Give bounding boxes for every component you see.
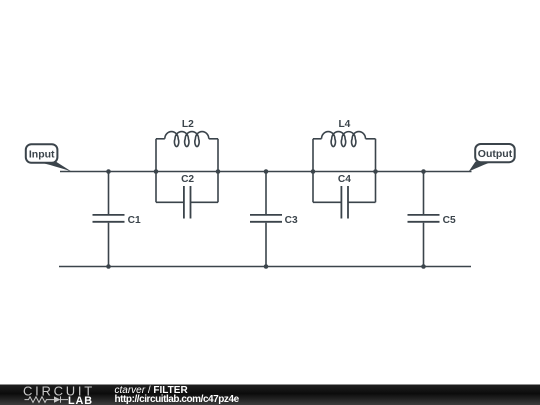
- capacitor C5: [408, 172, 440, 267]
- svg-text:Output: Output: [478, 148, 513, 160]
- node tank2 left: [311, 169, 316, 174]
- svg-text:C3: C3: [285, 215, 298, 226]
- capacitor C2: [184, 186, 191, 219]
- capacitor C4: [341, 186, 348, 219]
- node C5 bottom: [421, 264, 426, 269]
- svg-text:LAB: LAB: [68, 395, 93, 405]
- node tank1 right: [216, 169, 221, 174]
- junction dots: [106, 169, 426, 269]
- Output flag: [469, 144, 515, 172]
- capacitor C1: [93, 172, 125, 267]
- node C1 top: [106, 169, 111, 174]
- wire top rail: [60, 171, 472, 173]
- svg-text:http://circuitlab.com/c47pz4e: http://circuitlab.com/c47pz4e: [115, 394, 240, 405]
- svg-text:C4: C4: [338, 174, 351, 185]
- logo resistor-diode glyph: [25, 396, 69, 402]
- capacitor C3: [250, 172, 282, 267]
- svg-text:Input: Input: [29, 148, 55, 160]
- inductor L4: [322, 132, 366, 147]
- inductor L2: [165, 132, 209, 147]
- tank 2 frame: [313, 139, 376, 203]
- svg-text:C2: C2: [181, 174, 194, 185]
- node C1 bottom: [106, 264, 111, 269]
- svg-text:L2: L2: [182, 119, 194, 130]
- node C3 top: [264, 169, 269, 174]
- node tank2 right: [373, 169, 378, 174]
- wire bottom rail: [59, 266, 471, 268]
- node tank1 left: [154, 169, 159, 174]
- tank 1 frame: [156, 139, 218, 203]
- node C3 bottom: [264, 264, 269, 269]
- Input flag: [26, 144, 72, 172]
- svg-text:L4: L4: [338, 119, 350, 130]
- node C5 top: [421, 169, 426, 174]
- svg-text:C1: C1: [128, 215, 141, 226]
- component labels: [128, 119, 456, 226]
- svg-text:C5: C5: [443, 215, 456, 226]
